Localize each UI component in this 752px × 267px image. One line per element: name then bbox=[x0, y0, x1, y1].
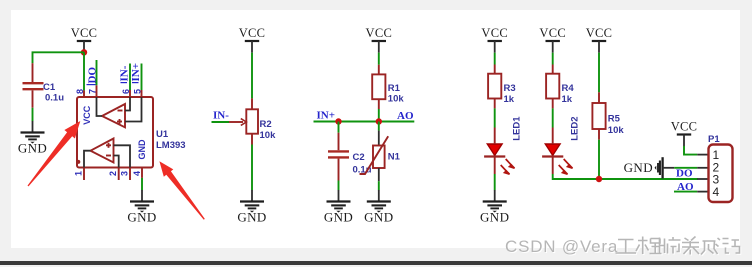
svg-text:1k: 1k bbox=[562, 94, 573, 105]
watermark CJK strokes bbox=[617, 238, 741, 256]
wire pin7 to out A bbox=[97, 97, 103, 116]
svg-text:7: 7 bbox=[88, 89, 98, 94]
svg-text:LED2: LED2 bbox=[570, 117, 581, 141]
wire pin5 to inA+ bbox=[125, 97, 142, 122]
wire VCC5 to R4 bbox=[552, 53, 554, 65]
svg-text:VCC: VCC bbox=[82, 105, 92, 125]
wire R4 to LED2 bbox=[552, 108, 554, 127]
svg-text:10k: 10k bbox=[260, 130, 277, 141]
pin stub 1 bbox=[697, 154, 708, 156]
ground GND2 bbox=[237, 190, 266, 224]
pin 4 stub bbox=[141, 168, 143, 178]
junction dot VCC1 bbox=[81, 49, 87, 55]
svg-text:CSDN @Vera: CSDN @Vera bbox=[505, 237, 618, 256]
watermark CSDN bbox=[505, 237, 619, 257]
wire LED2 to DO row bbox=[553, 174, 698, 179]
wire VCC3 to R1 bbox=[378, 53, 380, 65]
svg-text:1: 1 bbox=[74, 171, 84, 176]
resistor R5 bbox=[592, 92, 624, 139]
ground GND P1 (rotated) bbox=[624, 157, 675, 178]
wire inB- to pin2 bbox=[114, 156, 119, 168]
svg-text:R4: R4 bbox=[562, 83, 575, 94]
wire pin6 to inA- bbox=[125, 97, 130, 111]
wire R3 to LED1 bbox=[494, 108, 496, 127]
svg-text:LM393: LM393 bbox=[156, 140, 186, 151]
程 bbox=[636, 237, 662, 255]
LED2 bbox=[542, 144, 572, 174]
svg-text:10k: 10k bbox=[388, 93, 405, 104]
养 bbox=[682, 237, 699, 255]
svg-text:4: 4 bbox=[713, 185, 720, 199]
net label IN- (pin6) bbox=[119, 65, 131, 82]
wire N1 to GND bbox=[378, 181, 380, 190]
power VCC1 bbox=[71, 26, 98, 53]
svg-text:0.1u: 0.1u bbox=[45, 92, 64, 103]
resistor R2 potentiometer bbox=[229, 98, 276, 144]
comparator A triangle bbox=[102, 104, 125, 127]
师 bbox=[660, 237, 681, 254]
svg-text:8: 8 bbox=[75, 89, 85, 94]
wire pin6 bbox=[129, 64, 131, 91]
svg-text:IN-: IN- bbox=[119, 65, 131, 81]
wire VCC7 to pin1 bbox=[684, 146, 697, 155]
svg-text:R3: R3 bbox=[504, 83, 516, 94]
svg-text:3: 3 bbox=[120, 171, 130, 176]
svg-text:1k: 1k bbox=[504, 94, 515, 105]
resistor R1 bbox=[372, 65, 404, 109]
pin 2 stub bbox=[118, 168, 120, 181]
wire AO to pin4 bbox=[674, 191, 697, 193]
power VCC2 bbox=[239, 26, 266, 53]
ground GND LM393 bbox=[127, 190, 156, 224]
pin 8 stub bbox=[83, 90, 85, 97]
pin stub 2 bbox=[697, 167, 708, 169]
svg-text:R2: R2 bbox=[260, 119, 272, 130]
svg-text:DO: DO bbox=[87, 67, 99, 84]
svg-text:U1: U1 bbox=[156, 129, 169, 140]
wire pin4 to GND bbox=[141, 178, 143, 190]
pin 6 stub bbox=[129, 90, 131, 97]
ground GND4 bbox=[364, 190, 393, 224]
wire R2 to GND bbox=[251, 145, 253, 191]
thermistor N1 bbox=[360, 131, 401, 182]
op-amp U1 LM393 bbox=[74, 85, 186, 180]
svg-text:R1: R1 bbox=[388, 83, 401, 94]
comparator B triangle bbox=[91, 139, 114, 163]
wire VCC6 to R5 bbox=[598, 53, 600, 93]
power VCC6 bbox=[586, 26, 613, 53]
svg-text:5: 5 bbox=[133, 89, 143, 94]
body bbox=[709, 145, 733, 203]
svg-text:N1: N1 bbox=[388, 152, 401, 163]
wire C2 to GND bbox=[338, 181, 340, 191]
junction dot DO bbox=[596, 176, 602, 182]
wire C1 to GND bbox=[32, 108, 34, 121]
wire VCC4 to R3 bbox=[494, 53, 496, 65]
body box bbox=[77, 97, 153, 168]
svg-text:IN-: IN- bbox=[213, 109, 229, 121]
junction dot R1/N1 bbox=[376, 118, 382, 124]
connector P1 bbox=[697, 134, 732, 202]
svg-text:DO: DO bbox=[676, 168, 693, 180]
记 bbox=[723, 239, 740, 254]
wire node to N1 bbox=[378, 122, 380, 131]
svg-text:4: 4 bbox=[132, 171, 142, 176]
svg-text:IN+: IN+ bbox=[130, 63, 142, 82]
wire IN+ node AO bbox=[314, 121, 415, 123]
pin 5 stub bbox=[141, 90, 143, 97]
annotation arrow A bbox=[28, 121, 81, 186]
svg-text:2: 2 bbox=[108, 171, 118, 176]
power VCC3 bbox=[365, 26, 392, 53]
wire VCC2 to R2 bbox=[251, 53, 253, 99]
pin 1 stub bbox=[83, 168, 85, 181]
ground GND3 bbox=[324, 190, 353, 224]
svg-text:C2: C2 bbox=[353, 152, 365, 163]
wire R1 to node bbox=[378, 109, 380, 122]
wire R5 to DO row bbox=[598, 140, 600, 179]
pin stub 3 bbox=[697, 178, 708, 180]
svg-text:AO: AO bbox=[397, 110, 414, 122]
ground GND5 bbox=[480, 190, 509, 224]
LED1 bbox=[484, 144, 514, 174]
svg-text:LED1: LED1 bbox=[512, 116, 523, 141]
svg-text:R5: R5 bbox=[608, 114, 621, 125]
wire pin8 bbox=[83, 52, 85, 90]
svg-text:6: 6 bbox=[121, 89, 131, 94]
junction dot C2 bbox=[335, 118, 341, 124]
svg-text:10k: 10k bbox=[608, 125, 625, 136]
svg-text:IN+: IN+ bbox=[317, 109, 336, 121]
svg-text:P1: P1 bbox=[708, 134, 720, 145]
wire node to C2 bbox=[338, 122, 340, 133]
wire pin7 DO bbox=[96, 60, 98, 85]
wire GND to pin2 bbox=[674, 167, 697, 169]
ground GND1 bbox=[18, 121, 47, 155]
wire LED1 to GND bbox=[494, 174, 496, 190]
svg-text:GND: GND bbox=[137, 139, 147, 160]
power VCC7 bbox=[671, 120, 698, 147]
power VCC5 bbox=[539, 26, 566, 53]
wire pin5 bbox=[141, 64, 143, 91]
svg-text:GND: GND bbox=[624, 160, 653, 175]
wire out B to pin1 bbox=[84, 151, 91, 168]
net label DO bbox=[87, 67, 99, 85]
成 bbox=[701, 238, 720, 255]
resistor R3 bbox=[488, 65, 516, 109]
wire IN- to R2 wiper bbox=[212, 121, 230, 123]
net label IN+ (pin5) bbox=[130, 63, 142, 83]
pin stub 4 bbox=[697, 191, 708, 193]
capacitor C2 bbox=[328, 133, 372, 181]
resistor R4 bbox=[546, 65, 574, 109]
工 bbox=[616, 240, 637, 254]
annotation arrow B bbox=[159, 161, 204, 220]
wire inB+ to pin3 bbox=[114, 145, 131, 167]
power VCC4 bbox=[481, 26, 508, 53]
pin 7 stub bbox=[96, 85, 98, 97]
symbol dot bbox=[76, 160, 80, 164]
capacitor C1 bbox=[23, 63, 65, 108]
wire VCC1 to C1 bbox=[33, 52, 85, 63]
pin 3 stub bbox=[129, 168, 131, 181]
